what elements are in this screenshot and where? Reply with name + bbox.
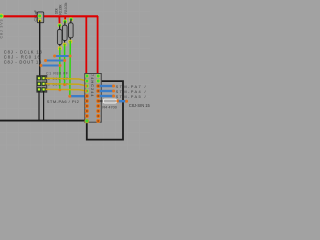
junction blue row4 right <box>84 95 87 98</box>
node VCC pad at left edge <box>0 14 4 19</box>
junction green R3 to blue row4 <box>68 95 71 98</box>
junction W3 left <box>40 64 43 67</box>
svg-text:STM-PA6 / PI2: STM-PA6 / PI2 <box>47 99 80 104</box>
svg-text:74HC244: 74HC244 <box>90 74 95 97</box>
svg-text:R2 100k: R2 100k <box>58 4 62 15</box>
junction W3 right on green <box>59 64 62 67</box>
junction out2 <box>112 90 115 93</box>
junction out3 <box>112 95 115 98</box>
junction W2 left <box>44 59 47 62</box>
capacitor C3 <box>37 12 43 23</box>
resistor R3 <box>68 17 73 43</box>
junction W1 left <box>53 55 56 58</box>
wire blue row4 to U1 <box>70 95 86 97</box>
wire green net R1 down <box>59 48 61 90</box>
resistor R2 <box>63 19 68 46</box>
wire header row1 yellow <box>46 78 87 81</box>
U1 left pins <box>85 74 90 123</box>
junction W2 right on green <box>63 59 66 62</box>
resistor R1 <box>57 23 62 50</box>
junction W1 right on green <box>69 55 72 58</box>
wire W1 blue DCLK <box>55 55 70 57</box>
wire red stub to R3 <box>70 16 73 19</box>
wire cap to header (black) <box>39 21 41 79</box>
wire green net R2 down <box>64 45 66 85</box>
svg-text:C8J-SIN 15: C8J-SIN 15 <box>129 103 150 108</box>
svg-text:R4 4700: R4 4700 <box>102 105 117 109</box>
svg-text:R3 100k: R3 100k <box>64 2 68 14</box>
wire ground loop to U1 OE <box>87 81 123 140</box>
svg-text:C3 1uF: C3 1uF <box>34 9 38 21</box>
wire red drop to U1 pin 19 <box>97 16 99 74</box>
wire green net R3 down <box>69 42 72 97</box>
wire U1 out blue 2 <box>100 90 114 92</box>
op-amp U1 74HC244 buffer box <box>85 74 102 123</box>
resistor R4 <box>100 99 120 103</box>
background canvas <box>0 0 150 150</box>
wire U1 out blue 3 <box>100 95 114 97</box>
svg-text:C8J 3V3: C8J 3V3 <box>0 20 4 39</box>
ground rail (black) <box>0 120 87 122</box>
wire R4 out blue <box>119 100 127 102</box>
junction green R2 to row2 <box>63 84 66 87</box>
wire header row3 yellow <box>46 89 87 91</box>
wire red stub to R2 <box>64 16 66 21</box>
wire red stub to R1 <box>58 16 60 25</box>
U1 right pins <box>96 74 100 123</box>
wire header pin5 to ground <box>38 91 40 121</box>
wire header pin6 to ground <box>43 91 45 121</box>
wire W3 blue DOUT <box>41 65 60 67</box>
connector J1 2x3 header <box>37 76 47 92</box>
junction R4 out <box>125 100 128 103</box>
junction out1 <box>112 85 115 88</box>
wire red drop to U1 pin 20 <box>85 16 87 74</box>
junction green R1 to row3 <box>59 89 62 92</box>
wire VCC rail (red) <box>0 15 98 17</box>
wire U1 out blue 1 <box>100 85 114 87</box>
svg-text:STM-PA5 /: STM-PA5 / <box>116 94 147 99</box>
wire header row2 yellow <box>46 84 87 86</box>
svg-text:C1 R88 #F: C1 R88 #F <box>46 71 68 75</box>
wire W2 blue RC0 <box>46 60 65 62</box>
svg-text:C8J - DOUT 14: C8J - DOUT 14 <box>4 60 42 65</box>
